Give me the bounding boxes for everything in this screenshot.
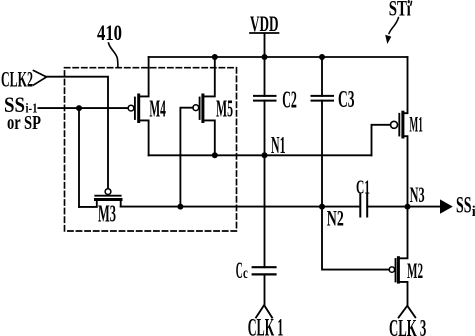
wire N1 to M1 gate (372, 125, 391, 156)
svg-text:C1: C1 (356, 176, 370, 198)
tick after STi (410, 2, 413, 6)
svg-text:SS: SS (456, 193, 472, 219)
junction dot on SSi-1 wire (76, 105, 82, 111)
input terminal symbol CLK2 (34, 71, 47, 86)
VDD top rail (149, 56, 408, 58)
wire VDD stub (264, 34, 266, 57)
svg-text:M2: M2 (407, 258, 423, 283)
junction dot N1/C2 (262, 152, 268, 158)
transistor M2 (PMOS) (389, 207, 407, 306)
svg-text:CLK 1: CLK 1 (248, 314, 284, 336)
transistor M3 (PMOS, horizontal) (79, 189, 121, 207)
clock terminal CLK 3 (399, 306, 416, 318)
svg-text:CLK2: CLK2 (1, 66, 33, 91)
capacitor C2 (254, 57, 276, 155)
wire SSi-1 input to M4 gate (38, 107, 128, 109)
junction dot N1/M5 (212, 152, 218, 158)
junction dot N2/C3 (319, 204, 325, 210)
arrow from STi to rail (389, 18, 399, 34)
wire N2 to M2 gate (322, 207, 389, 270)
wire N3 to output (408, 206, 441, 208)
svg-text:CLK 3: CLK 3 (389, 315, 426, 336)
svg-text:c: c (243, 265, 248, 282)
junction dot N3 (405, 204, 411, 210)
transistor M4 (PMOS) (128, 57, 149, 155)
svg-text:M3: M3 (98, 202, 116, 228)
arrowhead of STi arrow (385, 35, 391, 44)
svg-text:N3: N3 (410, 182, 425, 207)
wire M5 gate to N2 line (180, 108, 193, 207)
svg-text:410: 410 (97, 20, 122, 45)
svg-text:N2: N2 (327, 206, 344, 231)
node N1 wire (horizontal) (149, 154, 372, 156)
junction dot rail/M5 (212, 54, 218, 60)
junction dot rail/VDD-C2 (262, 54, 268, 60)
svg-text:C3: C3 (338, 87, 355, 113)
leader line from 410 label to dashed box (109, 43, 118, 68)
svg-text:STi: STi (389, 0, 411, 20)
svg-text:M4: M4 (149, 97, 166, 123)
svg-text:M1: M1 (409, 112, 423, 137)
dashed box 410 boundary (65, 68, 237, 231)
svg-text:C: C (236, 258, 243, 283)
wire C1 to N3 (367, 206, 407, 208)
junction dot N2/M5-gate (177, 204, 183, 210)
transistor M5 (PMOS) (193, 57, 215, 155)
wire from SSi-1 junction down to M3 source (78, 108, 80, 207)
capacitor Cc (253, 155, 276, 305)
junction dot rail/C3 (319, 54, 325, 60)
node N2 wire (M3 drain to C1) (121, 206, 360, 208)
capacitor C1 (360, 195, 367, 217)
svg-text:C2: C2 (282, 88, 297, 114)
transistor M1 (PMOS) (391, 57, 408, 207)
capacitor C3 (312, 57, 334, 207)
underline of VDD (250, 32, 279, 34)
svg-text:or SP: or SP (7, 112, 41, 134)
svg-text:M5: M5 (216, 97, 233, 123)
clock terminal CLK 1 (256, 305, 272, 318)
wire CLK2 to M3 gate (47, 77, 109, 189)
svg-text:N1: N1 (271, 133, 286, 159)
output arrowhead SSi (440, 199, 453, 213)
